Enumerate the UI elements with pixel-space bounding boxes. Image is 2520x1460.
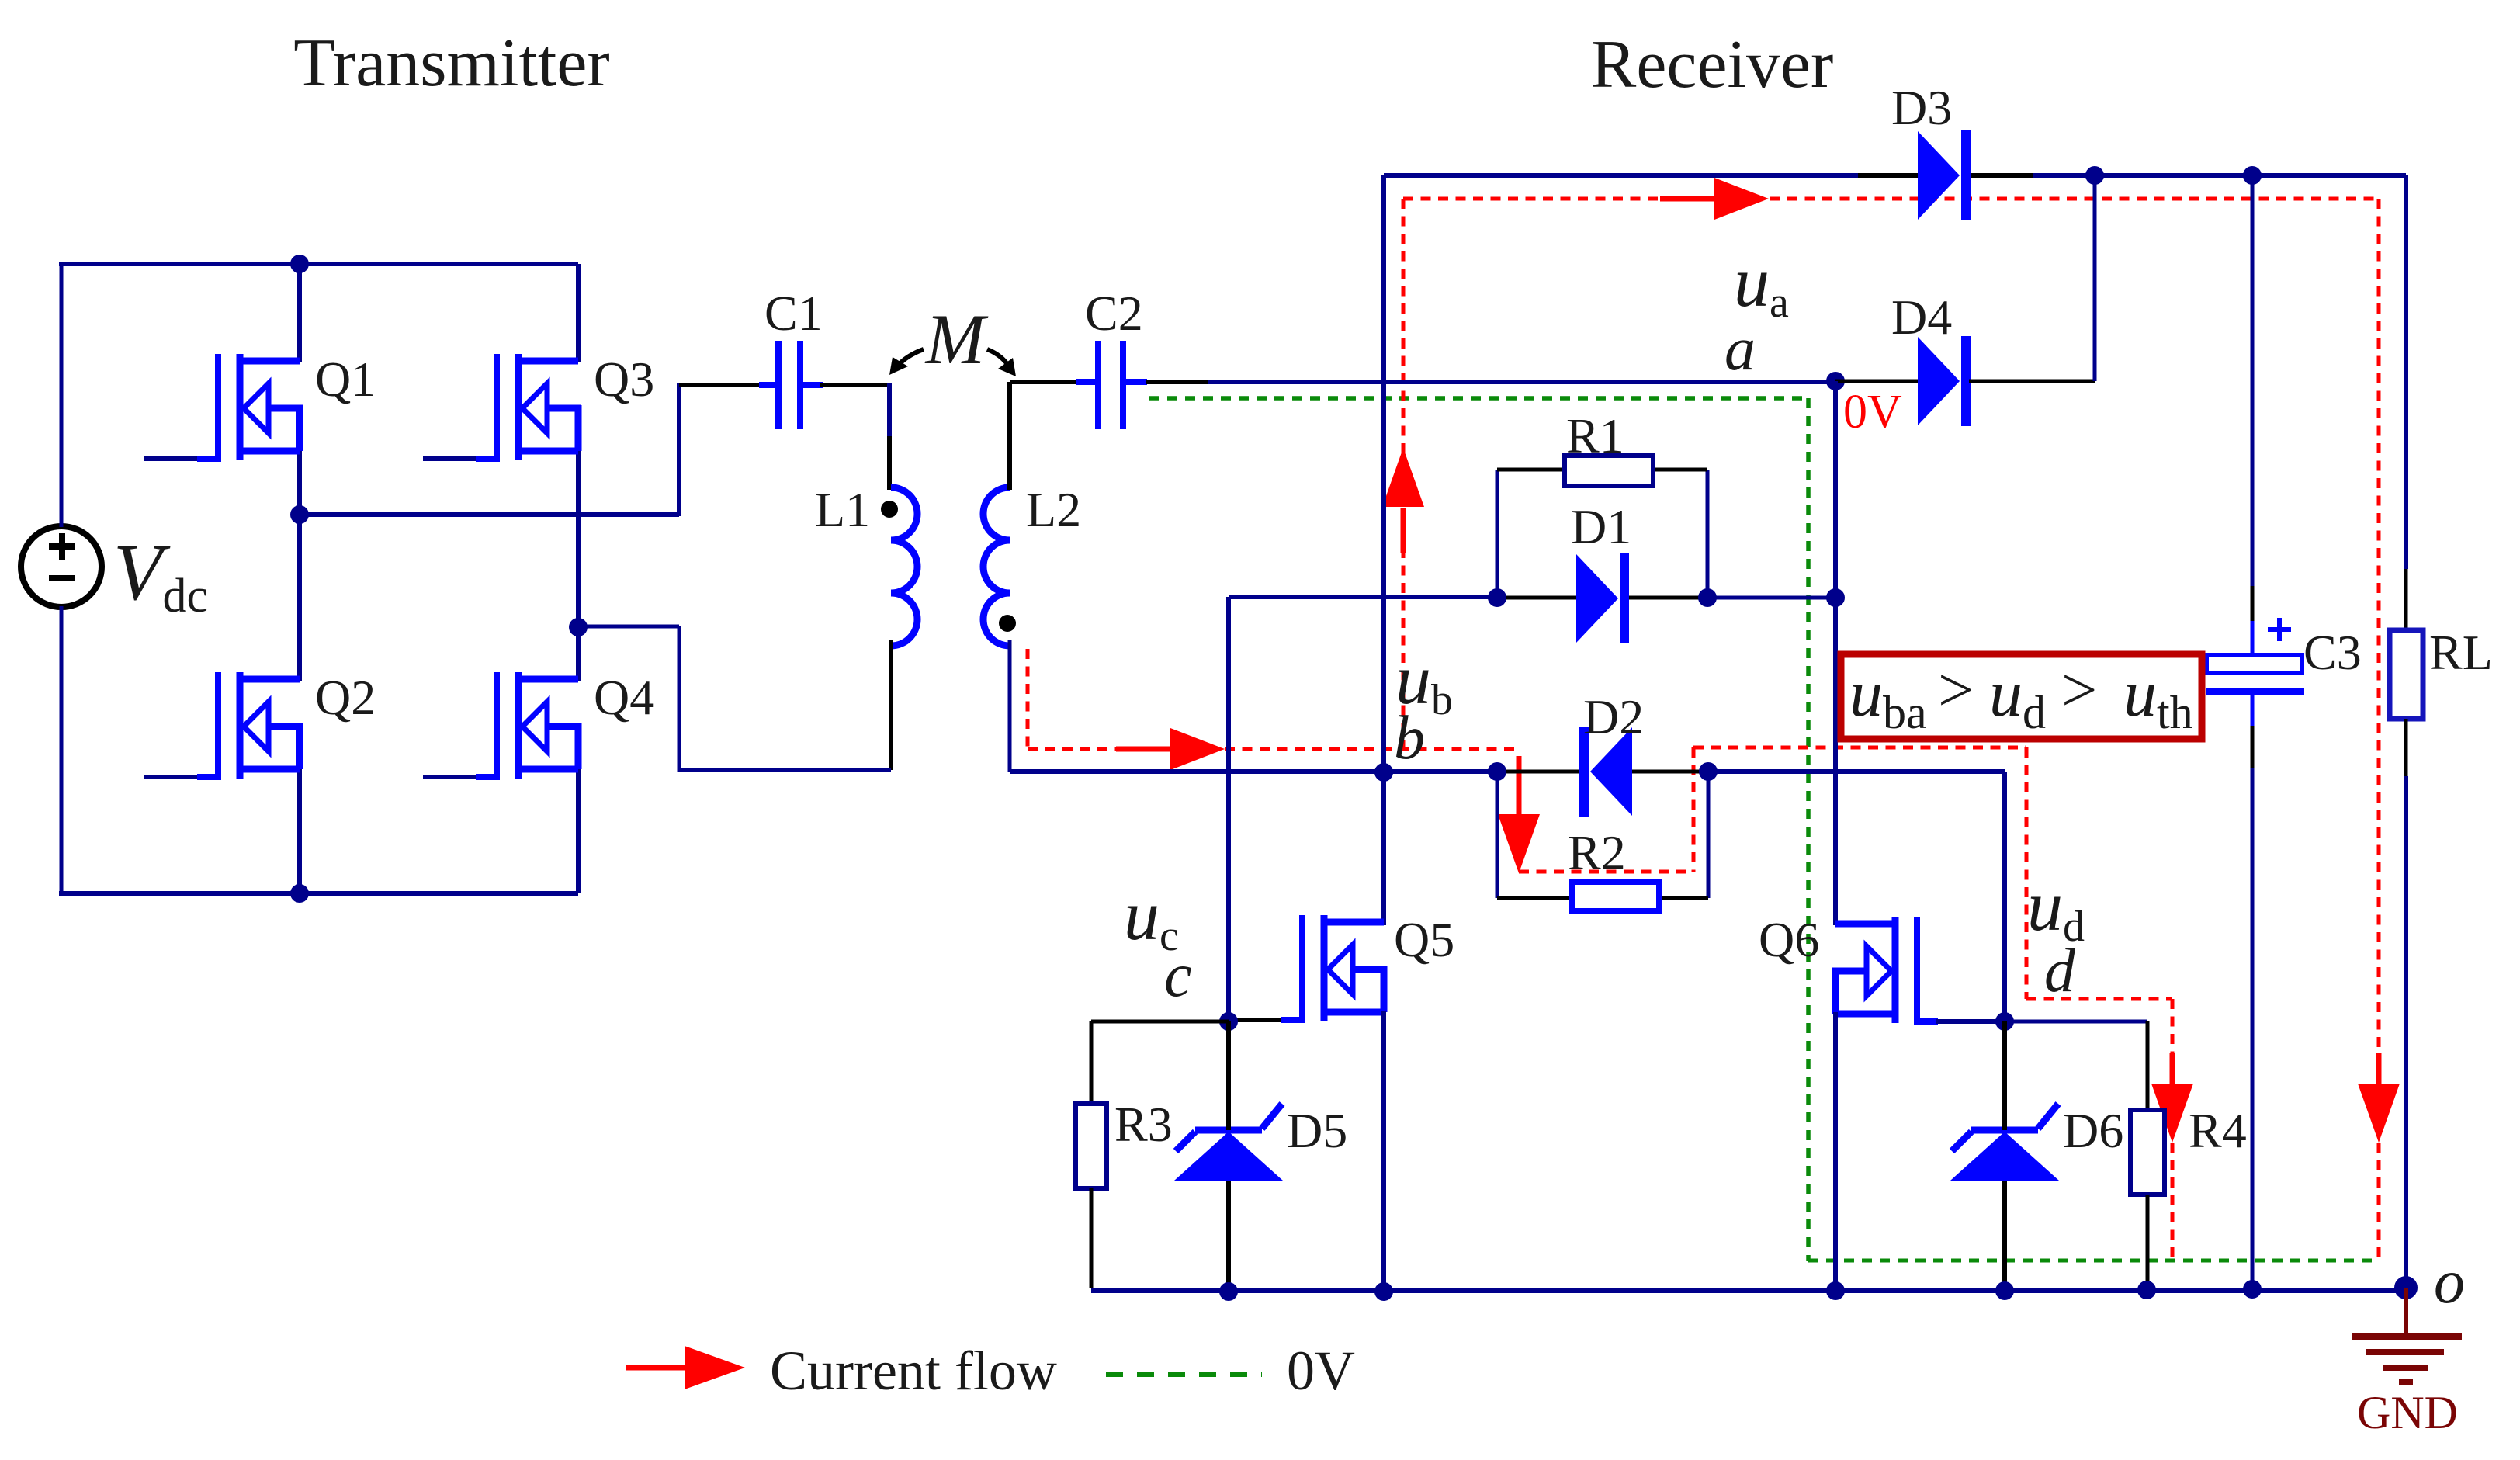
ground GND symbol xyxy=(2352,1288,2462,1382)
label ua xyxy=(1734,242,1789,327)
svg-text:0V: 0V xyxy=(1843,386,1902,439)
node junction top rail Q1 drain xyxy=(290,255,309,273)
label R3 xyxy=(1114,1097,1173,1152)
label Q6 xyxy=(1759,912,1819,967)
capacitor C3 xyxy=(2206,618,2304,692)
resistor R4 xyxy=(2130,1110,2165,1195)
wire Q2 gate lead xyxy=(144,775,221,779)
wire D4 cathode up to top rail xyxy=(1969,175,2095,381)
label M coupling xyxy=(924,300,989,379)
red current arrow down at R4 xyxy=(2151,1053,2193,1143)
svg-text:M: M xyxy=(924,300,989,379)
svg-text:C2: C2 xyxy=(1085,286,1143,341)
svg-text:GND: GND xyxy=(2357,1387,2458,1438)
svg-text:D6: D6 xyxy=(2063,1103,2123,1158)
svg-text:Q1: Q1 xyxy=(315,352,376,407)
label R1 xyxy=(1566,408,1624,463)
node o junction xyxy=(2394,1276,2418,1299)
wire R1 loop xyxy=(1497,470,1707,598)
svg-text:Q2: Q2 xyxy=(315,670,376,725)
resistor R2 xyxy=(1572,882,1659,911)
wire node b line xyxy=(1010,769,2005,774)
label GND xyxy=(2357,1387,2458,1438)
wire mid rail to C1 xyxy=(679,383,778,516)
svg-text:D1: D1 xyxy=(1571,499,1631,554)
wire RL to node o xyxy=(2404,719,2408,1287)
wire node a vertical to Q6 drain xyxy=(1833,381,1838,925)
title Receiver xyxy=(1591,27,1834,102)
voltage source Vdc xyxy=(21,526,102,607)
annotation box uba > ud > uth xyxy=(1841,654,2202,739)
svg-text:d: d xyxy=(2044,937,2076,1005)
svg-text:C1: C1 xyxy=(764,286,823,341)
wire Q6 source to bottom rail xyxy=(1833,1012,1838,1291)
wire Q2 source xyxy=(297,768,302,893)
resistor R3 xyxy=(1076,1104,1107,1188)
zener diode D5 xyxy=(1174,1104,1283,1181)
label D6 xyxy=(2063,1103,2123,1158)
diode D3 xyxy=(1918,130,1971,220)
svg-text:L1: L1 xyxy=(815,482,870,537)
wire D5 vertical xyxy=(1226,1021,1231,1292)
legend label Current flow xyxy=(770,1340,1057,1402)
resistor RL xyxy=(2390,630,2423,719)
transistor Q2 xyxy=(218,672,303,779)
wire Q5 gate lead xyxy=(1229,1018,1305,1022)
diode D1 xyxy=(1576,553,1629,643)
label R2 xyxy=(1568,825,1626,880)
label D4 xyxy=(1891,290,1952,345)
label C2 xyxy=(1085,286,1143,341)
label uc xyxy=(1124,876,1179,960)
node junction D4 top rail xyxy=(2085,166,2104,185)
svg-text:b: b xyxy=(1394,704,1425,772)
red dashed loop around R2 and onward to node d and R4 xyxy=(1519,747,2172,1258)
inductor L1 xyxy=(891,487,917,646)
wire Q3 gate lead xyxy=(423,456,500,461)
svg-text:>: > xyxy=(1938,654,1974,725)
label L2 xyxy=(1026,482,1081,537)
wire R3 to bottom rail xyxy=(1090,1188,1094,1288)
red dashed current path rising from node b to top rail and down right side xyxy=(1403,199,2379,1258)
mutual coupling arrow right xyxy=(987,349,1016,376)
svg-text:Transmitter: Transmitter xyxy=(293,26,609,101)
wire node b to Q5 drain xyxy=(1381,772,1386,925)
label L1 xyxy=(815,482,870,537)
label Vdc xyxy=(113,528,208,622)
node junction C3 top rail xyxy=(2243,166,2262,185)
transistor Q3 xyxy=(497,354,581,460)
label RL xyxy=(2429,625,2493,680)
0V green dashed path from C2 to node o rail xyxy=(1149,398,2380,1261)
red current arrow up from node b xyxy=(1382,448,1424,553)
diode D4 xyxy=(1918,336,1971,426)
svg-text:Q6: Q6 xyxy=(1759,912,1819,967)
title Transmitter xyxy=(293,26,609,101)
phase dot L1 xyxy=(881,501,898,518)
wire top rail xyxy=(59,262,578,266)
label node a xyxy=(1724,315,1756,383)
wire Q1 drain xyxy=(297,264,302,362)
wire node b vertical to top rail xyxy=(1381,175,1386,772)
label R4 xyxy=(2189,1103,2247,1158)
wire top rail right corner to RL xyxy=(2404,175,2408,632)
svg-text:>: > xyxy=(2061,654,2097,725)
svg-text:C3: C3 xyxy=(2303,625,2362,680)
wire D1 line xyxy=(1497,596,1835,600)
red dashed current path from L2 dot along node b line xyxy=(1028,649,1519,749)
svg-text:R1: R1 xyxy=(1566,408,1624,463)
svg-text:Q5: Q5 xyxy=(1394,912,1454,967)
wire node c feed from D1 line xyxy=(1229,597,1497,1021)
svg-text:D5: D5 xyxy=(1287,1103,1347,1158)
svg-text:D2: D2 xyxy=(1583,689,1644,744)
wire Q4 source xyxy=(576,768,581,893)
node d junction xyxy=(1995,1012,2014,1031)
node junction Q5 source bottom xyxy=(1374,1282,1393,1301)
red current arrow down at RL xyxy=(2358,1053,2400,1143)
node junction Q3-Q4 midpoint xyxy=(569,618,588,636)
label 0V red xyxy=(1843,386,1902,439)
wire Q4 gate lead xyxy=(423,775,500,779)
red current arrow on top path toward D3 xyxy=(1660,178,1769,220)
wire node b line down to node d xyxy=(2002,772,2007,1021)
node junction R4 bottom xyxy=(2137,1281,2156,1299)
label node b xyxy=(1394,704,1425,772)
wire node d to R4 xyxy=(2005,1021,2147,1111)
label Q5 xyxy=(1394,912,1454,967)
label D2 xyxy=(1583,689,1644,744)
svg-text:R4: R4 xyxy=(2189,1103,2247,1158)
label C3 xyxy=(2303,625,2362,680)
red current arrow down through R2 branch xyxy=(1498,756,1540,873)
label Q4 xyxy=(594,670,654,725)
svg-text:R2: R2 xyxy=(1568,825,1626,880)
wire bottom rail receiver xyxy=(1091,1288,2406,1293)
wire node c to R3 xyxy=(1091,1021,1229,1105)
svg-text:RL: RL xyxy=(2429,625,2493,680)
node c junction xyxy=(1219,1012,1238,1031)
wire L2 top to C2 xyxy=(1010,382,1099,490)
svg-text:o: o xyxy=(2434,1248,2465,1316)
node junction mid rail xyxy=(290,505,309,524)
label D3 xyxy=(1891,80,1952,135)
wire Q3 source xyxy=(576,449,581,627)
wire Vdc left branch xyxy=(60,264,64,893)
node junction D1 left xyxy=(1488,588,1506,607)
wire L2 bottom to node b line xyxy=(1008,640,1012,772)
label node o xyxy=(2434,1248,2465,1316)
inductor L2 xyxy=(983,487,1010,646)
label C1 xyxy=(764,286,823,341)
resistor R1 xyxy=(1565,456,1653,486)
svg-text:c: c xyxy=(1164,942,1192,1010)
node junction D5 bottom xyxy=(1219,1282,1238,1301)
mutual coupling arrow left xyxy=(889,349,924,375)
wire Q6 gate lead xyxy=(1914,1018,2005,1025)
wire D6 vertical xyxy=(2002,1021,2007,1291)
wire C1 to L1 top xyxy=(800,383,891,490)
label ub xyxy=(1395,640,1453,724)
svg-text:Q4: Q4 xyxy=(594,670,654,725)
wire Q5 source to bottom rail xyxy=(1381,1011,1386,1292)
svg-text:a: a xyxy=(1724,315,1756,383)
wire Q2 drain xyxy=(297,515,302,681)
wire Q1 gate lead xyxy=(144,456,221,461)
wire mid rail Q1-Q2 xyxy=(300,512,679,517)
capacitor C1 xyxy=(778,341,800,429)
label Q3 xyxy=(594,352,654,407)
node junction D6 bottom xyxy=(1995,1281,2014,1300)
wire Q3 drain xyxy=(576,264,581,362)
wire Q1 source xyxy=(297,449,302,515)
transistor Q4 xyxy=(497,672,581,779)
svg-text:Receiver: Receiver xyxy=(1591,27,1834,102)
diode D2 xyxy=(1579,727,1632,817)
wire C2 to node a xyxy=(1122,379,1835,385)
wire C3 vertical bottom xyxy=(2251,692,2255,1289)
legend label 0V xyxy=(1287,1340,1355,1402)
capacitor C2 xyxy=(1098,341,1123,429)
label D5 xyxy=(1287,1103,1347,1158)
label node d xyxy=(2044,937,2076,1005)
label ud xyxy=(2027,866,2085,951)
label Q1 xyxy=(315,352,376,407)
node b junction xyxy=(1374,763,1393,782)
node a junction xyxy=(1826,372,1845,390)
svg-text:D4: D4 xyxy=(1891,290,1952,345)
wire R4 to bottom rail xyxy=(2146,1195,2150,1289)
label node c xyxy=(1164,942,1192,1010)
transistor Q1 xyxy=(218,354,303,460)
node junction C3 bottom xyxy=(2243,1280,2262,1299)
label Q2 xyxy=(315,670,376,725)
svg-text:Q3: Q3 xyxy=(594,352,654,407)
wire R2 loop xyxy=(1497,772,1708,898)
svg-text:L2: L2 xyxy=(1026,482,1081,537)
wire L1 bottom to bridge xyxy=(578,626,891,772)
node junction D1 line node a vertical xyxy=(1826,588,1845,607)
node junction bottom rail Q2 source xyxy=(290,884,309,903)
legend 0V green dashes xyxy=(1106,1372,1262,1377)
wire node a to D4 xyxy=(1835,380,1919,383)
wire C3 vertical top xyxy=(2251,175,2255,657)
node junction D2 right xyxy=(1699,762,1718,781)
node junction D1 right xyxy=(1698,588,1717,607)
red current arrow on node b line xyxy=(1116,728,1225,770)
wire bottom rail transmitter xyxy=(59,891,578,896)
node junction Q6 source bottom xyxy=(1826,1281,1845,1300)
zener diode D6 xyxy=(1950,1104,2059,1181)
svg-text:0V: 0V xyxy=(1287,1340,1355,1402)
phase dot L2 xyxy=(999,615,1016,632)
svg-text:R3: R3 xyxy=(1114,1097,1173,1152)
label D1 xyxy=(1571,499,1631,554)
svg-text:Current flow: Current flow xyxy=(770,1340,1057,1402)
transistor Q5 xyxy=(1302,915,1387,1021)
svg-text:D3: D3 xyxy=(1891,80,1952,135)
legend current flow arrow xyxy=(626,1346,745,1389)
wire top rail receiver xyxy=(1384,173,2406,178)
node junction D2 left xyxy=(1488,762,1506,781)
wire Q4 drain xyxy=(576,627,581,681)
transistor Q6 xyxy=(1832,917,1917,1023)
